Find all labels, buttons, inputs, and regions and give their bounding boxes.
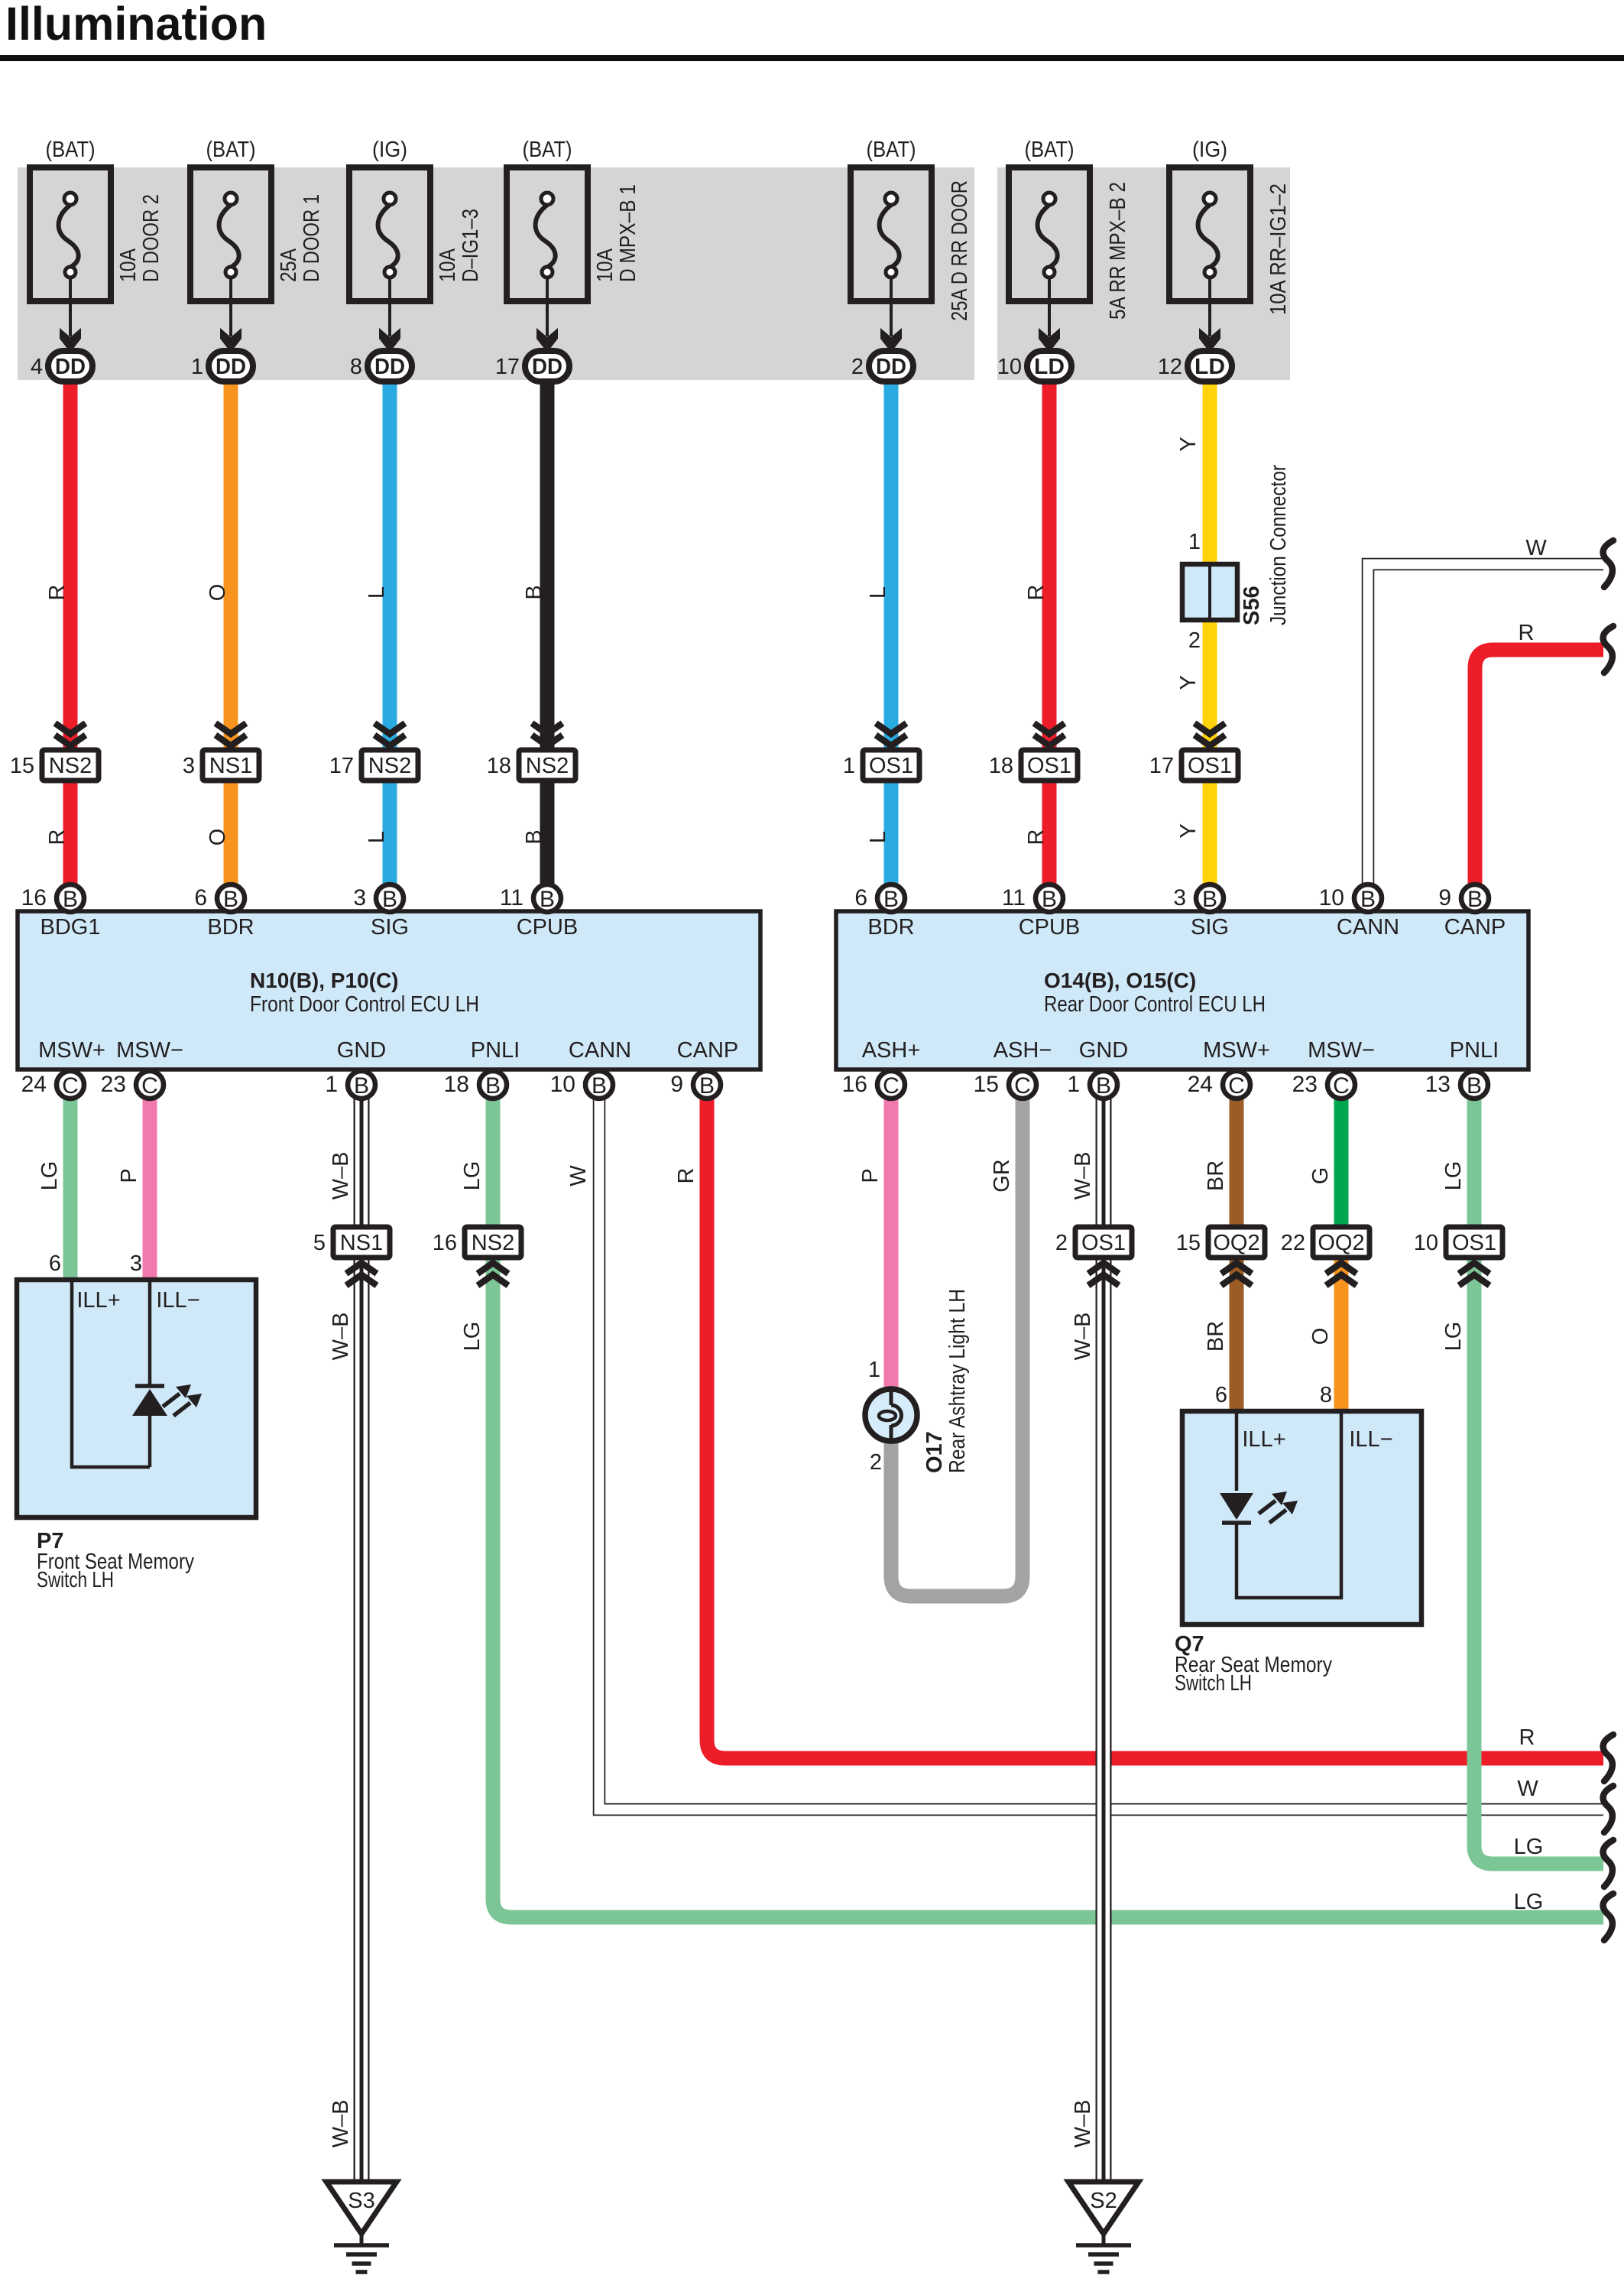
fuse 5A RR MPX-B 2 [997,138,1130,381]
svg-text:17: 17 [329,754,354,778]
wire B fuse17DD to CPUB [522,382,547,898]
svg-text:S3: S3 [348,2189,374,2213]
connector OS1 pin 2 lower [1055,1227,1132,1286]
svg-text:16: 16 [21,885,47,910]
ECU O14(B),O15(C) Rear Door Control ECU LH [836,911,1528,1069]
wire LG PNLI rear to right edge [1441,1085,1603,1864]
svg-text:LD: LD [1034,355,1065,379]
svg-text:11: 11 [500,885,524,910]
svg-text:O: O [1308,1328,1333,1345]
svg-text:LG: LG [1441,1322,1466,1352]
svg-text:10A RR–IG1–2: 10A RR–IG1–2 [1266,183,1291,315]
svg-text:Rear Door Control ECU LH: Rear Door Control ECU LH [1044,992,1266,1017]
svg-text:Y: Y [1176,823,1201,838]
svg-text:P: P [117,1168,141,1183]
svg-text:2: 2 [851,355,864,379]
svg-text:23: 23 [1292,1072,1318,1097]
svg-text:(IG): (IG) [372,138,407,162]
ground S2 [1068,2182,1139,2272]
svg-text:ILL+: ILL+ [76,1288,120,1313]
svg-text:NS1: NS1 [209,754,252,778]
svg-text:LG: LG [1514,1835,1544,1859]
svg-text:R: R [1024,829,1049,846]
svg-text:ILL−: ILL− [156,1288,199,1313]
svg-text:DD: DD [216,355,246,379]
svg-text:CANN: CANN [1337,915,1399,940]
svg-text:GR: GR [990,1159,1014,1193]
svg-text:ASH−: ASH− [994,1038,1052,1063]
svg-text:C: C [1333,1073,1350,1099]
svg-text:L: L [866,831,890,843]
svg-text:B: B [592,1073,607,1099]
svg-text:10: 10 [1414,1231,1438,1255]
svg-text:10: 10 [1319,885,1344,910]
connector OQ2 pin 22 lower [1281,1227,1370,1286]
svg-text:B: B [1467,887,1483,912]
svg-text:OS1: OS1 [1452,1231,1496,1255]
svg-text:OS1: OS1 [1027,754,1071,778]
svg-text:13: 13 [1425,1072,1451,1097]
svg-text:6: 6 [49,1251,61,1276]
svg-text:ASH+: ASH+ [862,1038,921,1063]
junction block band left [18,167,974,380]
svg-text:W–B: W–B [329,2100,353,2148]
svg-text:DD: DD [55,355,86,379]
svg-text:PNLI: PNLI [471,1038,520,1063]
svg-text:3: 3 [183,754,195,778]
switch P7 Front Seat Memory Switch LH [17,1251,256,1592]
svg-text:1: 1 [843,754,855,778]
svg-text:B: B [354,1073,369,1099]
svg-text:OS1: OS1 [1081,1231,1126,1255]
svg-text:B: B [540,887,555,912]
svg-text:DD: DD [374,355,405,379]
svg-text:D–IG1–3: D–IG1–3 [459,209,483,282]
svg-text:C: C [1014,1073,1031,1099]
wire P ASH+ to bulb O17 [858,1085,891,1388]
svg-text:17: 17 [1149,754,1174,778]
fuse 10A D MPX-B 1 [495,138,640,381]
fuse 25A D RR DOOR [851,138,972,381]
svg-text:C: C [1228,1073,1245,1099]
svg-text:B: B [382,887,397,912]
wire P MSW- to P7 pin3 [117,1085,150,1280]
svg-text:ILL+: ILL+ [1242,1427,1285,1452]
svg-text:NS1: NS1 [340,1231,383,1255]
wire L fuse2DD to rear BDR [866,382,891,898]
svg-text:S56: S56 [1240,586,1264,625]
svg-text:5: 5 [313,1231,326,1255]
svg-text:(BAT): (BAT) [206,138,256,162]
svg-text:R: R [674,1168,699,1184]
svg-text:DD: DD [532,355,562,379]
wire R right edge to rear CANP [1475,621,1603,898]
svg-text:B: B [1202,887,1217,912]
svg-text:B: B [522,585,546,599]
svg-text:11: 11 [1002,885,1026,910]
svg-text:B: B [883,887,899,912]
svg-text:(BAT): (BAT) [46,138,96,162]
svg-text:B: B [522,829,546,844]
wire L fuse8DD to SIG [365,382,390,898]
svg-text:B: B [699,1073,715,1099]
continuation squiggle LG1 [1603,1840,1613,1887]
svg-text:(BAT): (BAT) [867,138,916,162]
svg-text:D DOOR 2: D DOOR 2 [139,194,164,282]
connector NS1 pin 3 [183,723,259,781]
svg-text:N10(B), P10(C): N10(B), P10(C) [250,969,398,992]
svg-text:BDR: BDR [207,915,254,940]
svg-text:O: O [206,584,230,602]
svg-text:DD: DD [876,355,906,379]
LED in P7 [132,1384,202,1416]
svg-text:W: W [1517,1777,1538,1801]
svg-text:MSW+: MSW+ [38,1038,105,1063]
svg-text:B: B [63,887,78,912]
svg-text:25A: 25A [277,248,301,282]
svg-text:25A D RR DOOR: 25A D RR DOOR [948,180,972,321]
svg-text:LG: LG [1441,1161,1466,1191]
svg-text:10: 10 [997,355,1022,379]
svg-text:BDR: BDR [867,915,914,940]
connector NS2 pin 16 lower [433,1227,521,1286]
svg-text:L: L [365,586,389,599]
svg-text:W–B: W–B [329,1313,353,1361]
continuation squiggle W top [1603,540,1613,587]
svg-text:2: 2 [1055,1231,1068,1255]
svg-text:1: 1 [1067,1072,1080,1097]
connector NS2 pin 18 [487,723,575,781]
LED in Q7 [1220,1491,1298,1523]
wire GR bulb O17 to ASH- [891,1085,1023,1596]
svg-text:W–B: W–B [1071,1313,1095,1361]
wire W right edge to rear CANN [1368,536,1603,898]
svg-text:(IG): (IG) [1192,138,1227,162]
svg-text:C: C [62,1073,79,1099]
junction connector S56 [1182,465,1291,653]
svg-text:LG: LG [37,1161,62,1191]
svg-text:NS2: NS2 [472,1231,514,1255]
svg-text:18: 18 [487,754,511,778]
svg-text:NS2: NS2 [526,754,569,778]
svg-text:MSW−: MSW− [116,1038,183,1063]
svg-text:B: B [1042,887,1057,912]
wire BR MSW+ rear to Q7 pin6 [1204,1085,1237,1411]
wire O OQ2 to Q7 pin8 [1308,1242,1341,1411]
svg-text:Rear Ashtray Light LH: Rear Ashtray Light LH [945,1289,970,1473]
svg-text:18: 18 [444,1072,469,1097]
svg-text:PNLI: PNLI [1450,1038,1499,1063]
svg-text:2: 2 [870,1450,882,1475]
svg-text:L: L [866,586,890,599]
wire Y fuse12LD to rear SIG [1176,382,1210,898]
svg-text:OQ2: OQ2 [1213,1231,1259,1255]
svg-text:CPUB: CPUB [517,915,579,940]
svg-text:(BAT): (BAT) [1025,138,1075,162]
svg-text:R: R [1024,585,1049,601]
svg-text:W: W [1525,536,1547,560]
switch Q7 Rear Seat Memory Switch LH [1175,1383,1421,1696]
svg-text:Switch LH: Switch LH [1175,1671,1252,1696]
ground S3 [326,2182,397,2272]
svg-text:18: 18 [989,754,1013,778]
svg-text:BDG1: BDG1 [41,915,101,940]
svg-text:15: 15 [974,1072,999,1097]
wire R fuse10LD to rear CPUB [1024,382,1049,898]
continuation squiggle R bottom [1603,1735,1613,1781]
wire W-B GND rear to ground S2 [1071,1085,1104,2180]
svg-text:5A RR MPX–B 2: 5A RR MPX–B 2 [1106,182,1130,320]
svg-text:9: 9 [670,1072,683,1097]
svg-text:B: B [485,1073,501,1099]
svg-text:9: 9 [1438,885,1451,910]
connector OQ2 pin 15 lower [1176,1227,1265,1286]
svg-text:Illumination: Illumination [5,0,267,50]
svg-text:B: B [1096,1073,1111,1099]
svg-text:D MPX–B 1: D MPX–B 1 [616,184,640,282]
svg-text:8: 8 [350,355,362,379]
svg-text:L: L [365,831,389,843]
svg-text:12: 12 [1158,355,1182,379]
svg-text:GND: GND [1079,1038,1128,1063]
svg-text:22: 22 [1281,1231,1305,1255]
wire W-B GND front to ground S3 [329,1085,361,2180]
bulb O17 Rear Ashtray Light LH [865,1289,970,1475]
junction block band right [997,167,1290,380]
svg-text:O: O [206,829,230,846]
svg-text:R: R [1519,1725,1535,1750]
svg-text:6: 6 [854,885,867,910]
svg-text:3: 3 [353,885,366,910]
connector OS1 pin 18 [989,723,1078,781]
svg-text:O17: O17 [922,1431,947,1473]
svg-text:17: 17 [495,355,520,379]
svg-text:G: G [1308,1167,1333,1185]
svg-text:BR: BR [1204,1321,1228,1352]
wire O fuse1DD to BDR [206,382,231,898]
svg-text:24: 24 [1188,1072,1213,1097]
fuse 10A D DOOR 2 [30,138,164,381]
svg-text:1: 1 [325,1072,338,1097]
svg-text:CANP: CANP [1444,915,1506,940]
wire R fuse4DD to BDG1 [45,382,70,898]
svg-text:6: 6 [194,885,207,910]
svg-text:Y: Y [1176,437,1201,451]
svg-text:C: C [141,1073,158,1099]
svg-text:15: 15 [10,754,34,778]
svg-text:SIG: SIG [371,915,409,940]
svg-text:1: 1 [191,355,203,379]
connector OS1 pin 10 lower [1414,1227,1502,1286]
ECU N10(B),P10(C) Front Door Control ECU LH [18,911,760,1069]
svg-text:LG: LG [460,1322,485,1352]
svg-text:CANP: CANP [677,1038,739,1063]
svg-text:10A: 10A [116,248,141,282]
svg-text:B: B [1360,887,1376,912]
svg-text:MSW−: MSW− [1308,1038,1375,1063]
wire W CANN front to right edge [566,1085,1603,1809]
svg-text:1: 1 [1188,530,1201,554]
svg-text:OQ2: OQ2 [1318,1231,1364,1255]
wire G MSW- rear upper [1308,1085,1341,1242]
connector OS1 pin 17 [1149,723,1238,781]
continuation squiggle LG2 [1603,1894,1613,1940]
svg-text:W–B: W–B [1071,2100,1095,2148]
connector OS1 pin 1 [843,723,919,781]
svg-text:BR: BR [1204,1160,1228,1191]
svg-text:SIG: SIG [1191,915,1229,940]
front ECU pins [21,884,721,1099]
svg-text:W: W [566,1165,591,1186]
svg-text:MSW+: MSW+ [1203,1038,1270,1063]
svg-text:B: B [1467,1073,1482,1099]
svg-text:15: 15 [1176,1231,1201,1255]
svg-text:10: 10 [550,1072,575,1097]
svg-text:16: 16 [842,1072,867,1097]
rear ECU pins [842,884,1489,1099]
fuse 10A RR-IG1-2 [1158,138,1291,381]
svg-text:B: B [223,887,238,912]
connector NS1 pin 5 lower [313,1227,390,1286]
wire LG MSW+ to P7 pin6 [37,1085,70,1280]
svg-text:NS2: NS2 [368,754,411,778]
svg-text:Junction Connector: Junction Connector [1266,465,1291,625]
svg-text:3: 3 [130,1251,142,1276]
svg-text:LG: LG [460,1161,485,1191]
svg-text:OS1: OS1 [869,754,913,778]
svg-text:LG: LG [1514,1890,1544,1914]
svg-text:Front Door Control ECU LH: Front Door Control ECU LH [250,992,479,1017]
connector NS2 pin 15 [10,723,99,781]
continuation squiggle R top [1603,626,1613,673]
svg-text:W–B: W–B [1071,1152,1095,1200]
svg-text:NS2: NS2 [49,754,92,778]
svg-text:23: 23 [101,1072,126,1097]
svg-text:W–B: W–B [329,1152,353,1200]
svg-text:4: 4 [31,355,43,379]
svg-text:3: 3 [1173,885,1186,910]
continuation squiggle W bottom [1603,1786,1613,1832]
wire R CANP front to right edge [674,1085,1603,1758]
svg-text:R: R [1519,621,1535,645]
svg-text:R: R [45,585,70,601]
svg-text:24: 24 [21,1072,47,1097]
svg-text:O14(B), O15(C): O14(B), O15(C) [1044,969,1196,992]
svg-text:GND: GND [337,1038,386,1063]
svg-text:C: C [883,1073,900,1099]
svg-text:P: P [858,1168,883,1183]
svg-text:10A: 10A [436,248,460,282]
fuse 25A D DOOR 1 [190,138,324,381]
svg-text:Y: Y [1176,675,1201,690]
svg-text:CPUB: CPUB [1019,915,1081,940]
svg-text:(BAT): (BAT) [523,138,572,162]
title Illumination [5,0,267,50]
svg-text:R: R [45,829,70,846]
svg-text:S2: S2 [1090,2189,1117,2213]
svg-text:6: 6 [1215,1383,1227,1407]
svg-text:CANN: CANN [569,1038,631,1063]
svg-text:1: 1 [868,1358,880,1382]
svg-text:LD: LD [1194,355,1225,379]
title rule [0,55,1624,61]
svg-text:8: 8 [1320,1383,1332,1407]
wire LG PNLI front to right edge [460,1085,1603,1917]
svg-text:OS1: OS1 [1188,754,1232,778]
svg-text:Switch LH: Switch LH [37,1568,114,1592]
svg-text:ILL−: ILL− [1349,1427,1392,1452]
svg-text:10A: 10A [593,248,618,282]
connector NS2 pin 17 [329,723,418,781]
fuse 10A D-IG1-3 [349,138,483,381]
svg-text:D DOOR 1: D DOOR 1 [300,194,324,282]
svg-text:16: 16 [433,1231,457,1255]
svg-text:2: 2 [1188,628,1201,653]
